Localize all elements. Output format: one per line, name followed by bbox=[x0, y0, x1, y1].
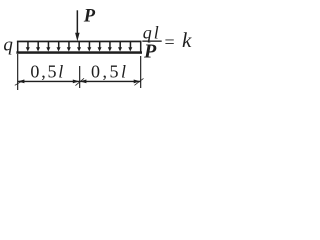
svg-text:=: = bbox=[165, 32, 175, 52]
svg-text:0,5l: 0,5l bbox=[30, 61, 65, 81]
beam bbox=[16, 51, 142, 54]
svg-text:q: q bbox=[3, 34, 13, 55]
distributed load top line bbox=[17, 41, 142, 43]
svg-text:P: P bbox=[143, 41, 157, 63]
svg-text:P: P bbox=[83, 7, 96, 27]
force P arrow bbox=[75, 10, 80, 41]
extension line center bbox=[79, 66, 80, 88]
svg-text:0,5l: 0,5l bbox=[91, 61, 129, 81]
dimension line bbox=[15, 78, 144, 86]
svg-text:k: k bbox=[182, 28, 192, 52]
distributed load arrows bbox=[17, 41, 142, 52]
dimension arrowheads bbox=[18, 80, 25, 84]
extension line left bbox=[17, 54, 18, 90]
extension line right bbox=[140, 56, 141, 88]
fraction bar bbox=[142, 41, 161, 42]
